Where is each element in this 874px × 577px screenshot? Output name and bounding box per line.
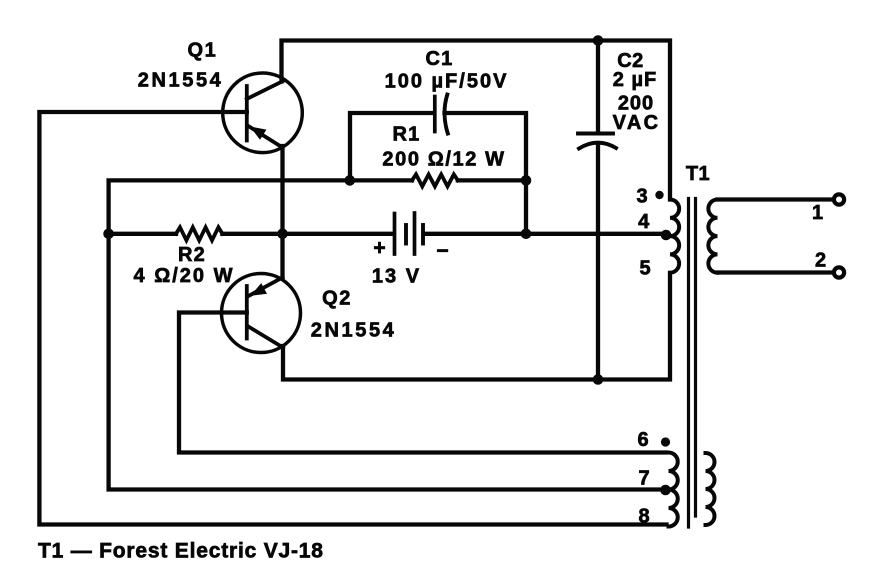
svg-text:4: 4 — [638, 211, 650, 233]
svg-text:13 V: 13 V — [372, 265, 421, 287]
svg-text:Q1: Q1 — [188, 39, 218, 61]
svg-text:8: 8 — [638, 505, 649, 527]
svg-text:100 µF/50V: 100 µF/50V — [385, 70, 509, 92]
svg-text:2N1554: 2N1554 — [138, 70, 224, 92]
svg-text:C1: C1 — [426, 48, 454, 70]
svg-text:2N1554: 2N1554 — [311, 319, 397, 341]
svg-text:Q2: Q2 — [322, 287, 352, 309]
svg-text:2 µF: 2 µF — [613, 69, 657, 91]
svg-text:T1: T1 — [686, 163, 710, 185]
svg-text:6: 6 — [637, 429, 648, 451]
svg-text:R1: R1 — [393, 123, 421, 145]
svg-text:2: 2 — [815, 249, 826, 271]
svg-text:5: 5 — [639, 257, 650, 279]
svg-text:4 Ω/20 W: 4 Ω/20 W — [134, 265, 235, 287]
svg-text:VAC: VAC — [613, 112, 661, 134]
svg-text:T1 — Forest Electric VJ-18: T1 — Forest Electric VJ-18 — [38, 540, 324, 563]
svg-text:3: 3 — [636, 185, 647, 207]
svg-text:R2: R2 — [178, 244, 206, 266]
svg-text:1: 1 — [812, 202, 823, 224]
svg-text:−: − — [436, 240, 448, 263]
svg-text:200 Ω/12 W: 200 Ω/12 W — [382, 148, 505, 170]
svg-text:+: + — [373, 237, 385, 260]
svg-text:7: 7 — [638, 467, 649, 489]
